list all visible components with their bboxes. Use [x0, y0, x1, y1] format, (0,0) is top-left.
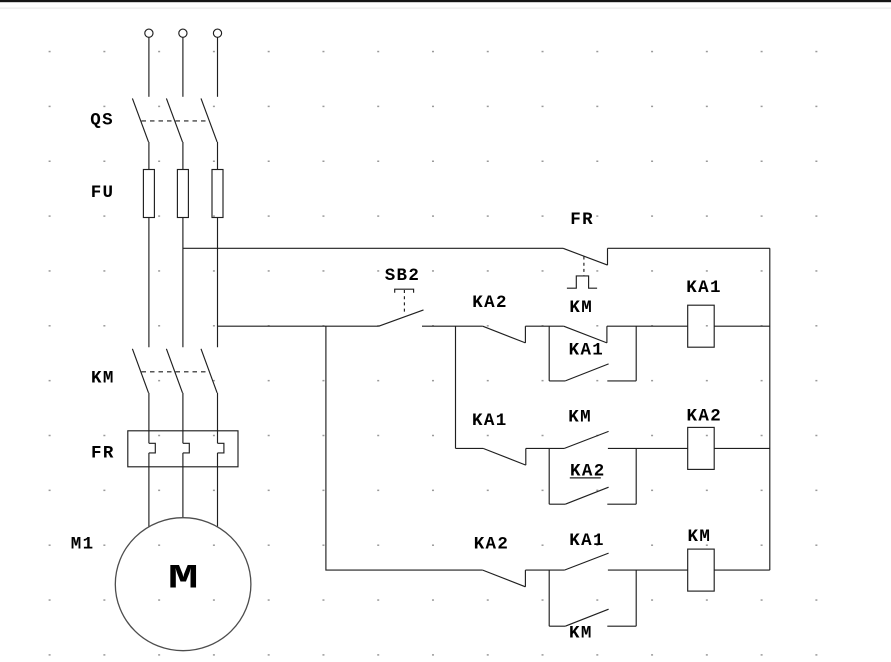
supply terminal L3: [213, 29, 221, 37]
svg-text:QS: QS: [90, 110, 114, 130]
rung 3 wire KA1 contact to coil KM: [608, 569, 688, 571]
KA2 NO contact blade (branch rung 2): [565, 487, 608, 504]
rung 3 wire coil KM to rail: [714, 569, 770, 571]
contactor KM main pole 3 blade: [201, 349, 217, 393]
rung 1 wire KA2 to KM contact: [525, 325, 563, 327]
KA1 NC contact blade (rung 2): [483, 448, 526, 465]
wire QS to FU phase 2: [182, 142, 184, 170]
rung 1 wire from L3 tap to SB2: [218, 325, 379, 327]
wire QS to FU phase 1: [148, 142, 150, 170]
grid dots: [48, 50, 820, 657]
svg-text:M1: M1: [71, 534, 95, 554]
KM self-hold branch right riser: [635, 570, 637, 626]
KM NO contact blade (branch rung 3): [565, 609, 608, 626]
svg-text:KA1: KA1: [686, 278, 722, 298]
switch QS pole 2 blade: [166, 98, 182, 141]
KA2 self-hold branch bottom right wire: [607, 503, 636, 505]
motor M1 circle: [115, 518, 251, 651]
svg-text:KA1: KA1: [569, 340, 605, 360]
rung 1 wire SB2 to KA2 contact: [422, 325, 483, 327]
KA1 NO contact blade (rung 3): [564, 553, 608, 570]
wire KM to FR phase 3: [217, 393, 219, 444]
wire FR to motor phase 1: [148, 453, 150, 527]
wire FU to KM phase 1: [148, 218, 150, 348]
wire FR to motor phase 2: [182, 453, 184, 518]
svg-text:FR: FR: [91, 443, 115, 463]
wire FU to KM phase 3 (tap node to control at y=326.2): [217, 218, 219, 348]
KA1 NC contact stub (rung 2): [525, 448, 527, 465]
wire KM to FR phase 2: [182, 393, 184, 444]
KA2 self-hold branch right riser: [635, 448, 637, 504]
KA2 self-hold branch bottom left wire: [549, 503, 565, 505]
control feed wire (top rung) left of FR contact: [183, 247, 563, 249]
supply terminal L1: [145, 29, 153, 37]
svg-text:KA1: KA1: [569, 531, 605, 551]
svg-text:SB2: SB2: [385, 266, 421, 286]
wire L2 drop to QS: [182, 37, 184, 96]
rung 1 wire KM contact to coil KA1: [607, 325, 688, 327]
FR heater element 1: [149, 443, 155, 453]
rung 3 wire KA2 contact to KA1 contact: [525, 569, 564, 571]
svg-text:KM: KM: [569, 624, 593, 644]
rung 2 wire KM contact to coil KA2: [608, 447, 688, 449]
KA2 NC contact stub (rung 1): [524, 326, 526, 343]
KA1 self-hold branch bottom left wire: [549, 380, 565, 382]
svg-text:M: M: [168, 560, 199, 599]
FR NC contact stub: [607, 248, 609, 265]
svg-text:KA2: KA2: [474, 534, 510, 554]
FR heater element 3: [218, 443, 224, 453]
wire KM to FR phase 1: [148, 393, 150, 444]
svg-text:KA1: KA1: [472, 411, 508, 431]
KA1 NO contact blade (branch rung 1): [565, 364, 608, 381]
switch QS pole 1 blade: [132, 98, 148, 141]
KM self-hold branch left drop (rung 3): [548, 570, 550, 626]
fuse FU 2: [177, 170, 188, 218]
wire L3 drop to QS: [217, 37, 219, 96]
KA1 self-hold branch right riser: [635, 326, 637, 381]
right rail: [769, 248, 771, 570]
svg-text:KM: KM: [688, 527, 712, 547]
KM NC contact blade (rung 1): [564, 326, 607, 343]
FR actuator dashed stem: [583, 257, 585, 276]
coil KA1: [688, 305, 715, 347]
svg-text:KA2: KA2: [472, 293, 508, 313]
switch QS pole 3 blade: [201, 98, 217, 141]
tap wire down to rung 2: [455, 326, 457, 448]
rung 1 wire coil KA1 to rail: [714, 325, 770, 327]
KA1 self-hold branch left drop (rung 1): [548, 326, 550, 381]
SB2 actuator bracket: [395, 289, 414, 293]
KA2 self-hold branch left drop (rung 2): [548, 448, 550, 504]
KM gang dashed link: [142, 371, 206, 373]
fuse FU 1: [143, 170, 154, 218]
rung 2 wire from tap corner to KA1 contact: [456, 447, 484, 449]
control feed wire right of FR contact: [608, 247, 770, 249]
coil KA2: [688, 427, 715, 469]
rung 2 wire KA1 contact to KM contact: [526, 447, 565, 449]
thermal overload FR box: [128, 431, 238, 467]
left tap wire down to rung 3: [326, 326, 483, 570]
top window border bar: [0, 0, 891, 2]
svg-text:FU: FU: [91, 183, 115, 203]
KA2 NC contact blade (rung 1): [483, 326, 526, 343]
KM NC contact stub (rung 1): [606, 326, 608, 343]
wire FU to KM phase 2 (tap node to control at y=248.3): [182, 218, 184, 348]
wire L1 drop to QS: [148, 37, 150, 96]
wire FR to motor phase 3: [217, 453, 219, 527]
FR NC contact blade: [563, 248, 607, 265]
QS gang dashed link: [142, 120, 206, 122]
wire QS to FU phase 3: [217, 142, 219, 170]
svg-text:KM: KM: [568, 407, 592, 427]
pushbutton SB2 blade: [379, 310, 424, 326]
contactor KM main pole 2 blade: [166, 349, 182, 393]
KA1 self-hold branch bottom right wire: [607, 380, 636, 382]
rung 2 wire coil KA2 to rail: [714, 447, 770, 449]
FR actuator bump symbol: [567, 276, 597, 288]
fuse FU 3: [212, 170, 223, 218]
KM NO contact blade (rung 2): [564, 431, 608, 448]
KM self-hold branch bottom left wire: [549, 625, 565, 627]
SB2 actuator dashed stem: [403, 290, 405, 314]
coil KM: [688, 549, 715, 591]
svg-text:FR: FR: [570, 210, 594, 230]
KA2 NC contact stub (rung 3): [524, 570, 526, 587]
svg-text:KM: KM: [569, 298, 593, 318]
supply terminal L2: [179, 29, 187, 37]
contactor KM main pole 1 blade: [132, 349, 148, 393]
svg-text:KM: KM: [91, 369, 115, 389]
FR heater element 2: [183, 443, 189, 453]
KA2 NC contact blade (rung 3): [483, 570, 526, 587]
KM self-hold branch bottom right wire: [607, 625, 636, 627]
svg-text:KA2: KA2: [687, 407, 723, 427]
